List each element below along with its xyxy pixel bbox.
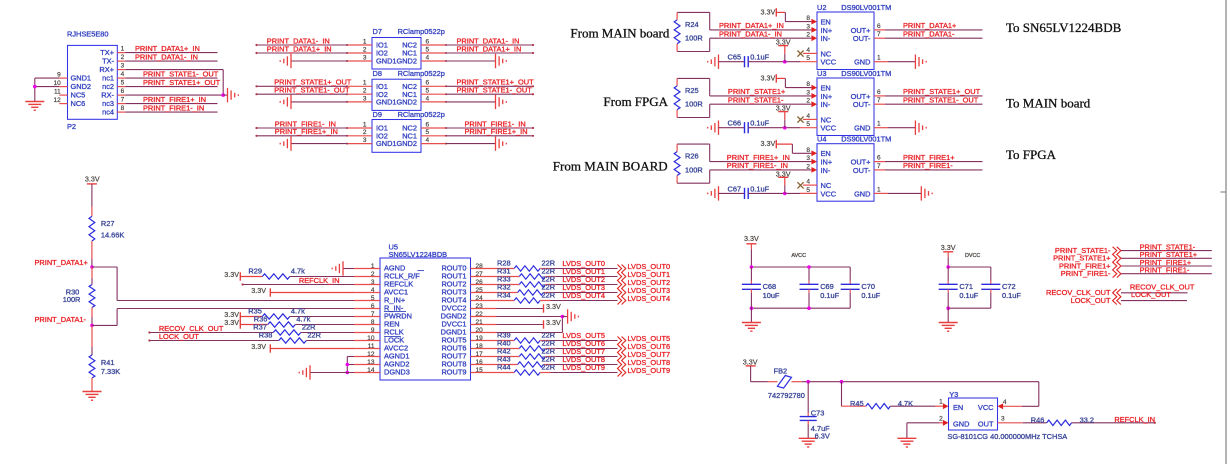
svg-text:VCC: VCC [821, 124, 837, 133]
svg-text:3.3V: 3.3V [744, 234, 759, 243]
svg-text:C65: C65 [728, 53, 742, 62]
svg-text:6: 6 [121, 88, 125, 95]
svg-text:0.1uF: 0.1uF [750, 119, 769, 128]
svg-text:GND1: GND1 [376, 98, 397, 107]
svg-text:4: 4 [121, 71, 125, 78]
svg-text:20: 20 [476, 327, 484, 334]
svg-text:14.66K: 14.66K [101, 231, 124, 240]
svg-text:LVDS_OUT4: LVDS_OUT4 [562, 291, 605, 300]
svg-text:6: 6 [877, 23, 881, 30]
svg-text:12: 12 [53, 97, 61, 104]
svg-text:3.3V: 3.3V [761, 139, 776, 148]
svg-text:6: 6 [426, 80, 430, 87]
svg-text:14: 14 [367, 367, 375, 374]
svg-text:R26: R26 [685, 152, 699, 161]
svg-text:LOCK_OUT: LOCK_OUT [1131, 290, 1171, 299]
svg-text:OUT-: OUT- [853, 34, 871, 43]
svg-text:25: 25 [476, 287, 484, 294]
svg-text:PRINT_DATA1-_IN: PRINT_DATA1-_IN [135, 52, 198, 61]
svg-text:19: 19 [476, 335, 484, 342]
svg-text:27: 27 [476, 271, 484, 278]
svg-text:1: 1 [121, 46, 125, 53]
svg-text:VCC: VCC [821, 58, 837, 67]
svg-text:DGND3: DGND3 [384, 368, 410, 377]
svg-text:LVDS_OUT9: LVDS_OUT9 [562, 363, 605, 372]
svg-text:3.3V: 3.3V [224, 270, 239, 279]
svg-text:24: 24 [476, 295, 484, 302]
svg-text:DS90LV001TM: DS90LV001TM [841, 3, 891, 12]
svg-text:11: 11 [54, 88, 61, 95]
svg-text:IN-: IN- [821, 100, 831, 109]
svg-text:28: 28 [476, 263, 484, 270]
svg-text:0.1uF: 0.1uF [820, 291, 839, 300]
svg-text:PRINT_DATA1-: PRINT_DATA1- [903, 30, 955, 39]
svg-text:U3: U3 [817, 69, 826, 78]
svg-text:3.3V: 3.3V [761, 73, 776, 82]
svg-text:1: 1 [371, 263, 375, 270]
svg-text:LVDS_OUT4: LVDS_OUT4 [628, 294, 671, 303]
svg-text:LOCK_OUT: LOCK_OUT [1071, 296, 1111, 305]
svg-text:3: 3 [363, 54, 367, 61]
svg-text:16: 16 [476, 359, 484, 366]
svg-text:1: 1 [363, 121, 367, 128]
svg-text:3.3V: 3.3V [224, 318, 239, 327]
svg-text:13: 13 [367, 359, 375, 366]
svg-text:R25: R25 [685, 86, 699, 95]
svg-text:3.3V: 3.3V [761, 7, 776, 16]
svg-text:18: 18 [476, 343, 484, 350]
svg-text:33.2: 33.2 [1080, 415, 1094, 424]
svg-text:6: 6 [371, 303, 375, 310]
svg-text:21: 21 [476, 319, 484, 326]
svg-text:R38: R38 [259, 330, 273, 339]
svg-text:5: 5 [426, 129, 430, 136]
svg-text:OUT-: OUT- [853, 166, 871, 175]
svg-text:22R: 22R [542, 290, 556, 299]
svg-text:R44: R44 [497, 362, 511, 371]
svg-text:RJHSE5E80: RJHSE5E80 [67, 30, 109, 39]
svg-text:ROUT9: ROUT9 [441, 368, 466, 377]
svg-text:PRINT_DATA1-: PRINT_DATA1- [35, 315, 87, 324]
svg-text:12: 12 [367, 351, 375, 358]
svg-text:3: 3 [1001, 416, 1005, 423]
svg-text:R29: R29 [248, 266, 262, 275]
svg-text:DS90LV001TM: DS90LV001TM [841, 69, 891, 78]
svg-text:C71: C71 [959, 282, 973, 291]
svg-text:GND: GND [854, 189, 870, 198]
svg-text:4.7K: 4.7K [898, 399, 913, 408]
svg-text:6: 6 [877, 155, 881, 162]
svg-text:15: 15 [476, 367, 484, 374]
svg-text:8: 8 [371, 319, 375, 326]
svg-text:3.3V: 3.3V [743, 357, 758, 366]
svg-text:4: 4 [426, 95, 430, 102]
svg-text:C70: C70 [861, 282, 875, 291]
svg-text:3.3V: 3.3V [251, 286, 266, 295]
svg-text:To SN65LV1224BDB: To SN65LV1224BDB [1006, 20, 1122, 35]
svg-text:3.3V: 3.3V [546, 302, 561, 311]
svg-text:D9: D9 [373, 110, 382, 119]
svg-text:9: 9 [371, 327, 375, 334]
svg-text:11: 11 [368, 343, 375, 350]
svg-text:GND: GND [953, 420, 969, 429]
svg-text:3.3V: 3.3V [941, 243, 956, 252]
svg-text:6: 6 [426, 121, 430, 128]
svg-text:10: 10 [367, 335, 375, 342]
svg-text:FB2: FB2 [774, 366, 788, 375]
svg-text:4: 4 [426, 54, 430, 61]
svg-text:nc4: nc4 [102, 108, 114, 117]
svg-text:VCC: VCC [821, 189, 837, 198]
svg-text:OUT: OUT [978, 420, 994, 429]
svg-text:7: 7 [371, 311, 375, 318]
svg-text:1: 1 [363, 38, 367, 45]
svg-text:PRINT_STATE1+_OUT: PRINT_STATE1+_OUT [143, 78, 221, 87]
svg-text:PRINT_FIRE1-: PRINT_FIRE1- [1140, 266, 1190, 275]
svg-text:7: 7 [877, 163, 881, 170]
svg-text:R46: R46 [1031, 415, 1045, 424]
svg-text:PRINT_FIRE1-: PRINT_FIRE1- [903, 161, 953, 170]
svg-text:NC6: NC6 [71, 99, 86, 108]
svg-text:5: 5 [426, 46, 430, 53]
svg-text:REFCLK_IN: REFCLK_IN [299, 276, 340, 285]
svg-text:GND2: GND2 [396, 98, 417, 107]
svg-text:VCC: VCC [978, 403, 994, 412]
svg-text:RClamp0522p: RClamp0522p [398, 27, 445, 36]
svg-text:PRINT_DATA1+_IN: PRINT_DATA1+_IN [457, 44, 522, 53]
svg-text:100R: 100R [685, 34, 703, 43]
svg-text:DVCC: DVCC [965, 253, 980, 259]
svg-text:PRINT_DATA1+: PRINT_DATA1+ [35, 258, 88, 267]
svg-text:4.7k: 4.7k [291, 266, 305, 275]
svg-text:100R: 100R [63, 295, 81, 304]
svg-text:0.1uF: 0.1uF [1002, 291, 1021, 300]
svg-text:Y3: Y3 [949, 390, 958, 399]
svg-text:100R: 100R [685, 100, 703, 109]
svg-text:AVCC: AVCC [791, 253, 806, 259]
svg-text:RClamp0522p: RClamp0522p [398, 69, 445, 78]
svg-text:26: 26 [476, 279, 484, 286]
svg-text:7: 7 [877, 31, 881, 38]
svg-text:3: 3 [371, 279, 375, 286]
svg-text:PRINT_STATE1-_OUT: PRINT_STATE1-_OUT [903, 96, 979, 105]
svg-text:IN-: IN- [821, 34, 831, 43]
svg-text:3.3V: 3.3V [251, 342, 266, 351]
svg-text:9: 9 [57, 71, 61, 78]
svg-text:2: 2 [363, 88, 367, 95]
svg-text:LVDS_OUT9: LVDS_OUT9 [628, 366, 671, 375]
svg-text:3: 3 [363, 137, 367, 144]
svg-text:2: 2 [939, 415, 943, 422]
svg-text:LOCK_OUT: LOCK_OUT [159, 332, 199, 341]
svg-text:From MAIN board: From MAIN board [570, 26, 669, 41]
svg-text:5: 5 [426, 88, 430, 95]
svg-text:PRINT_FIRE1-_IN: PRINT_FIRE1-_IN [143, 103, 204, 112]
svg-text:C66: C66 [728, 119, 742, 128]
svg-text:5: 5 [121, 80, 125, 87]
svg-text:2: 2 [363, 129, 367, 136]
svg-text:6.3V: 6.3V [815, 432, 830, 441]
svg-text:23: 23 [476, 303, 484, 310]
svg-text:SG-8101CG 40.000000MHz TCHSA: SG-8101CG 40.000000MHz TCHSA [947, 432, 1067, 441]
svg-text:PRINT_STATE1-_OUT: PRINT_STATE1-_OUT [457, 86, 533, 95]
svg-text:To MAIN board: To MAIN board [1006, 95, 1091, 110]
svg-text:22R: 22R [307, 330, 321, 339]
svg-text:From FPGA: From FPGA [603, 94, 668, 109]
svg-text:GND2: GND2 [396, 139, 417, 148]
svg-text:0.1uF: 0.1uF [750, 184, 769, 193]
svg-text:D8: D8 [373, 69, 382, 78]
svg-text:R45: R45 [850, 399, 864, 408]
svg-text:GND1: GND1 [376, 139, 397, 148]
svg-text:OUT-: OUT- [853, 100, 871, 109]
svg-text:EN: EN [953, 403, 963, 412]
svg-text:7.33K: 7.33K [101, 367, 120, 376]
svg-text:0.1uF: 0.1uF [861, 291, 880, 300]
svg-text:2: 2 [121, 54, 125, 61]
svg-text:1: 1 [939, 399, 943, 406]
svg-text:10: 10 [53, 80, 61, 87]
svg-text:0.1uF: 0.1uF [750, 53, 769, 62]
svg-text:0.1uF: 0.1uF [959, 291, 978, 300]
svg-text:742792780: 742792780 [768, 391, 805, 400]
svg-text:PRINT_STATE1-_OUT: PRINT_STATE1-_OUT [274, 86, 350, 95]
svg-text:GND: GND [854, 124, 870, 133]
svg-text:R27: R27 [101, 219, 115, 228]
svg-text:17: 17 [476, 351, 484, 358]
svg-text:3.3V: 3.3V [85, 174, 100, 183]
svg-text:7: 7 [121, 97, 125, 104]
svg-text:3: 3 [363, 95, 367, 102]
svg-text:2: 2 [371, 271, 375, 278]
svg-text:PRINT_FIRE1+_IN: PRINT_FIRE1+_IN [275, 127, 338, 136]
svg-text:3.3V: 3.3V [546, 318, 561, 327]
svg-text:DS90LV001TM: DS90LV001TM [841, 135, 891, 144]
svg-text:IN-: IN- [821, 166, 831, 175]
svg-text:GND: GND [854, 58, 870, 67]
svg-text:D7: D7 [373, 27, 382, 36]
svg-text:4: 4 [371, 287, 375, 294]
svg-text:1: 1 [877, 121, 881, 128]
svg-text:GND1: GND1 [376, 57, 397, 66]
svg-text:4: 4 [426, 137, 430, 144]
svg-text:PRINT_DATA1-_IN: PRINT_DATA1-_IN [719, 30, 782, 39]
svg-text:10uF: 10uF [763, 291, 780, 300]
svg-text:PRINT_FIRE1+_IN: PRINT_FIRE1+_IN [465, 127, 528, 136]
svg-text:3: 3 [121, 63, 125, 70]
svg-text:C69: C69 [820, 282, 834, 291]
svg-text:PRINT_DATA1+_IN: PRINT_DATA1+_IN [267, 44, 332, 53]
svg-text:C72: C72 [1002, 282, 1016, 291]
svg-text:U2: U2 [817, 3, 826, 12]
svg-text:R34: R34 [497, 290, 511, 299]
svg-text:R24: R24 [685, 20, 699, 29]
svg-text:C73: C73 [811, 409, 825, 418]
svg-text:6: 6 [426, 38, 430, 45]
svg-text:To FPGA: To FPGA [1006, 147, 1057, 162]
svg-text:1: 1 [877, 186, 881, 193]
svg-text:1: 1 [877, 55, 881, 62]
svg-text:C67: C67 [728, 184, 742, 193]
svg-text:RClamp0522p: RClamp0522p [398, 110, 445, 119]
svg-text:7: 7 [877, 97, 881, 104]
svg-text:5: 5 [371, 295, 375, 302]
svg-text:REFCLK_IN: REFCLK_IN [1114, 415, 1155, 424]
svg-text:PRINT_FIRE1-: PRINT_FIRE1- [1061, 269, 1111, 278]
svg-text:8: 8 [121, 105, 125, 112]
svg-text:22: 22 [476, 311, 484, 318]
svg-text:From MAIN BOARD: From MAIN BOARD [553, 159, 668, 174]
svg-text:1: 1 [363, 80, 367, 87]
svg-text:C68: C68 [763, 282, 777, 291]
svg-text:U4: U4 [817, 135, 826, 144]
svg-text:100R: 100R [685, 165, 703, 174]
svg-text:R41: R41 [101, 358, 115, 367]
svg-text:4: 4 [1003, 399, 1007, 406]
svg-text:6: 6 [877, 89, 881, 96]
svg-text:22R: 22R [542, 362, 556, 371]
svg-text:P2: P2 [67, 122, 76, 131]
svg-text:SN65LV1224BDB: SN65LV1224BDB [389, 250, 448, 259]
svg-text:2: 2 [363, 46, 367, 53]
svg-text:GND2: GND2 [396, 57, 417, 66]
